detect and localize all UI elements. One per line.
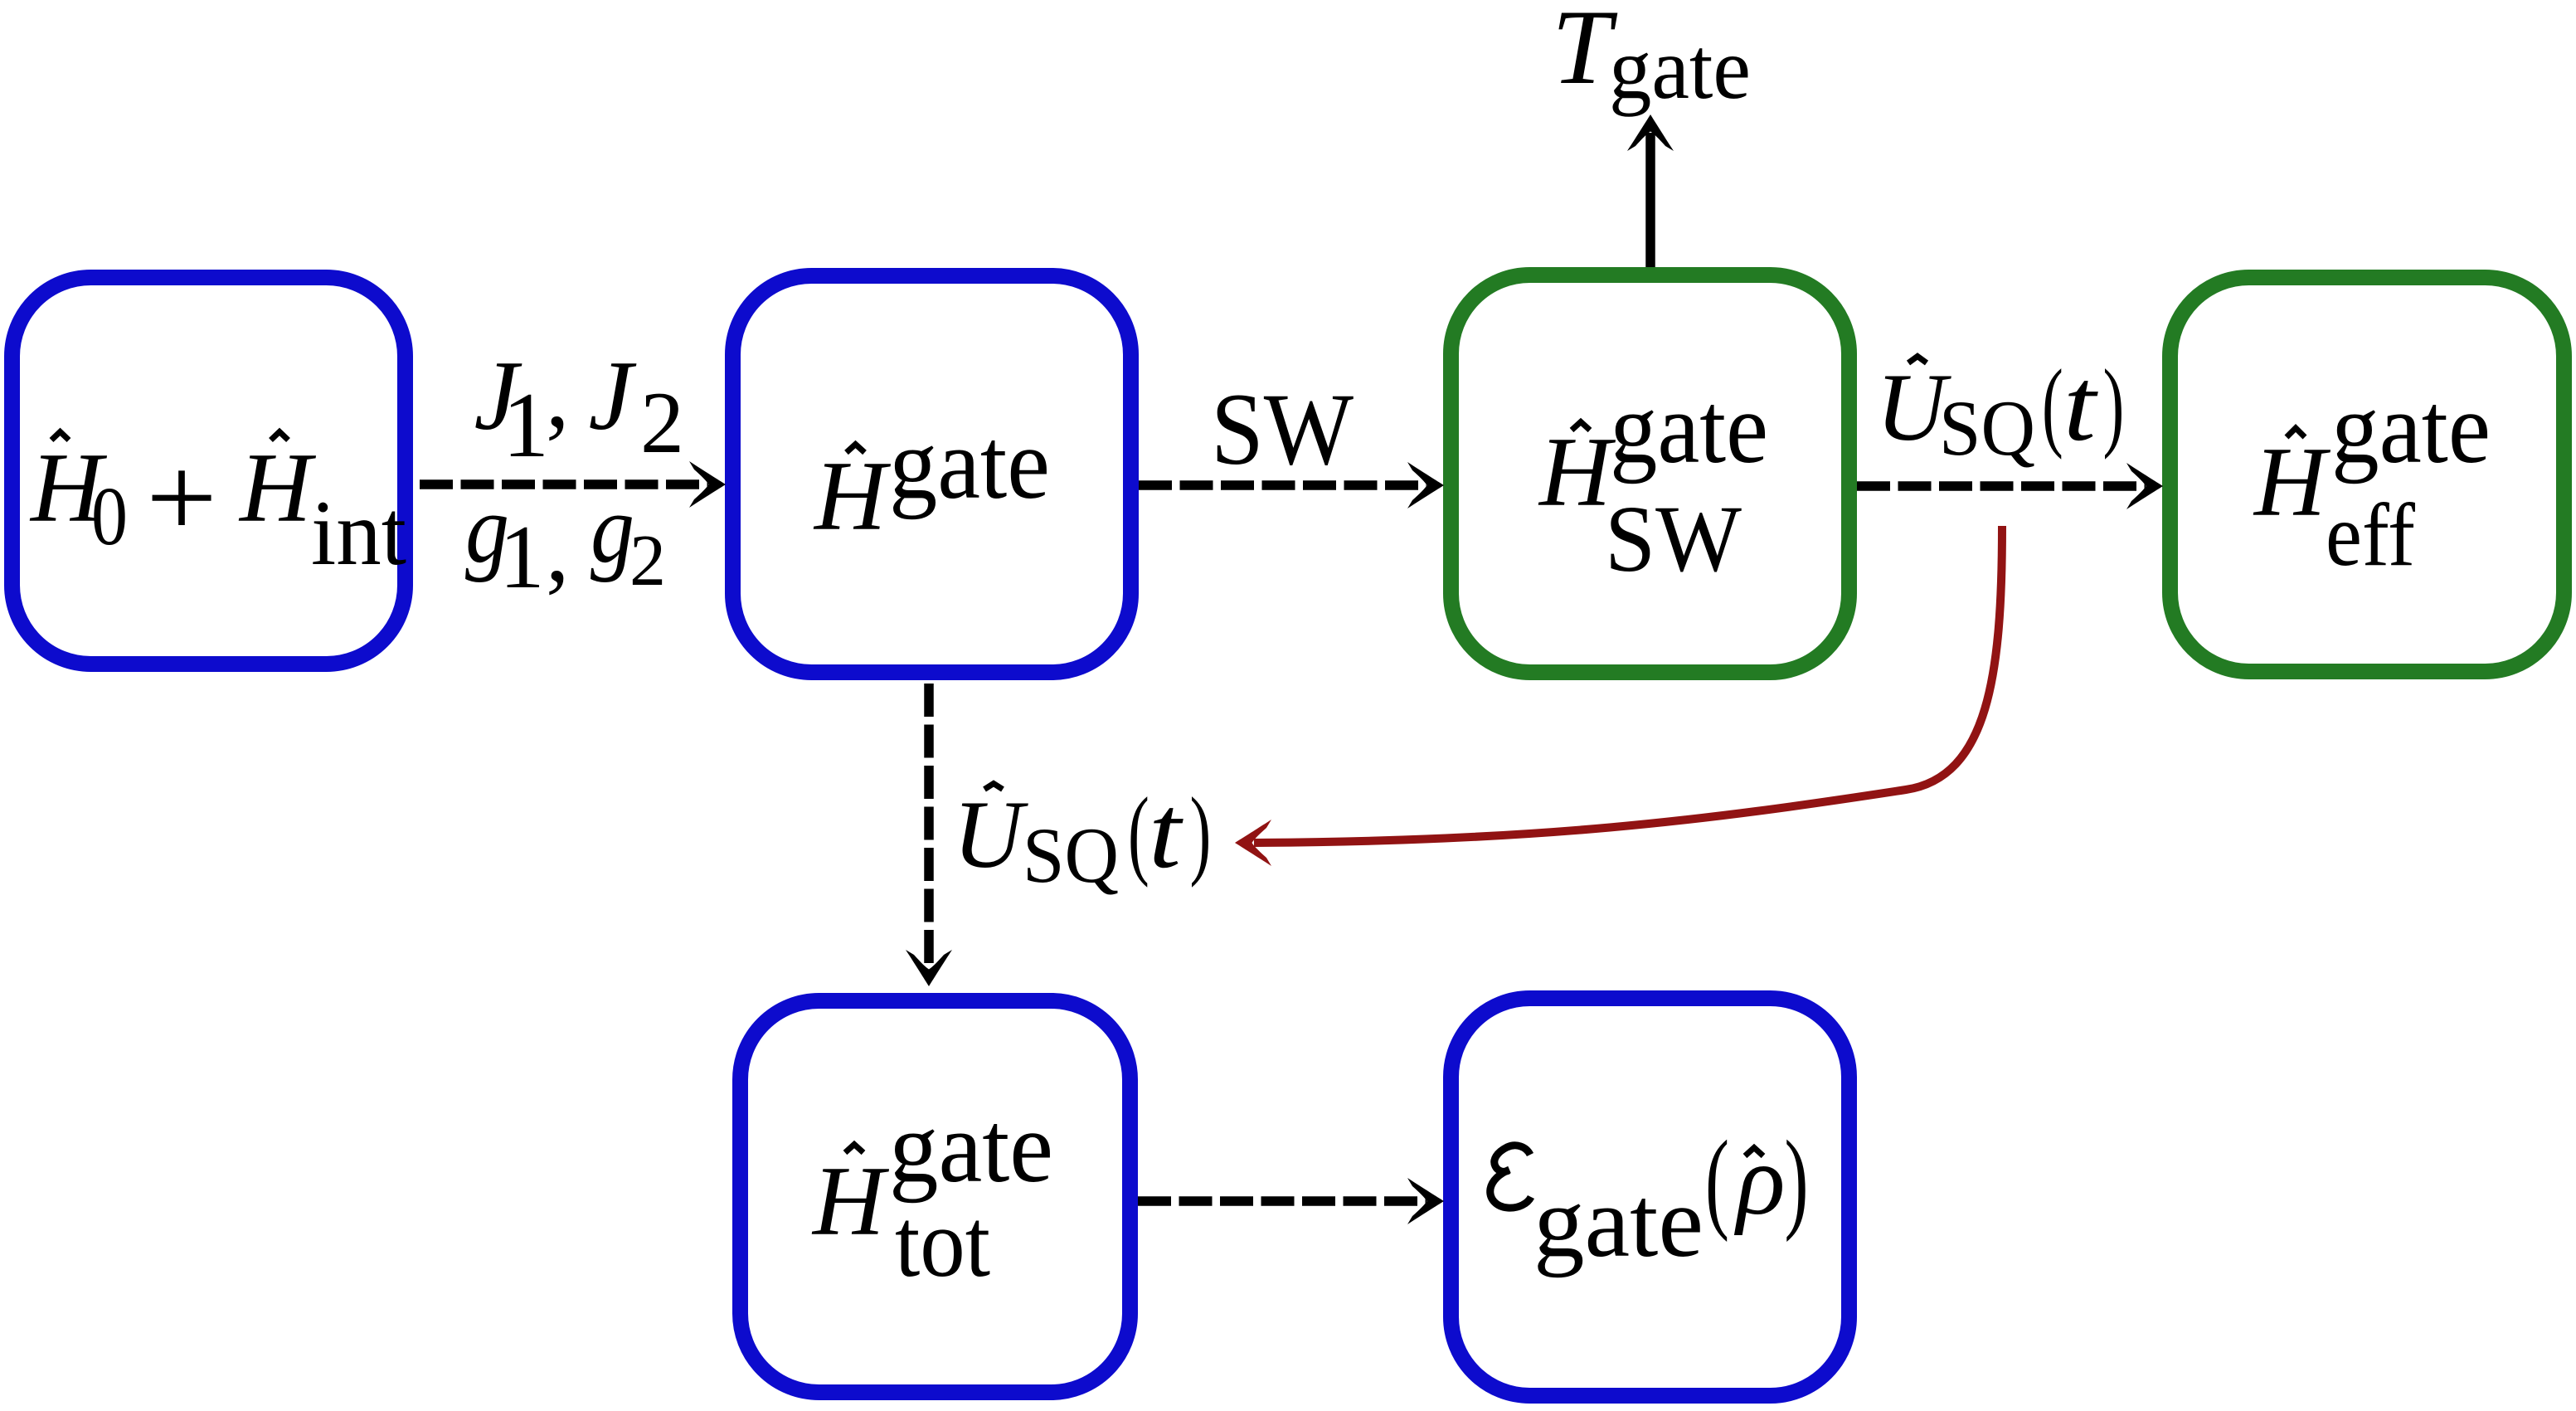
svg-text:gate: gate: [1610, 372, 1768, 484]
svg-text:SW: SW: [1605, 486, 1742, 591]
svg-text:H: H: [238, 432, 317, 543]
svg-text:1: 1: [499, 507, 545, 607]
svg-text:SW: SW: [1211, 372, 1354, 486]
svg-text:,: ,: [546, 342, 570, 447]
svg-text:H: H: [811, 1146, 890, 1256]
svg-text:gate: gate: [2331, 372, 2491, 484]
svg-text:2: 2: [629, 521, 666, 601]
svg-text:2: 2: [640, 374, 684, 471]
svg-text:g: g: [591, 474, 634, 583]
svg-text:eff: eff: [2326, 486, 2415, 585]
svg-text:gate: gate: [1609, 20, 1751, 117]
svg-text:J: J: [589, 340, 637, 450]
svg-text:(: (: [1128, 776, 1149, 888]
svg-text:SQ: SQ: [1023, 811, 1119, 899]
svg-text:): ): [1785, 1117, 1809, 1243]
svg-text:tot: tot: [895, 1189, 990, 1297]
svg-text:U: U: [953, 781, 1028, 888]
svg-text:t: t: [1149, 775, 1184, 890]
svg-text:t: t: [2063, 348, 2098, 463]
svg-text:ρ: ρ: [1733, 1124, 1786, 1236]
svg-text:gate: gate: [1533, 1166, 1704, 1278]
svg-text:SQ: SQ: [1939, 384, 2035, 472]
svg-text:H: H: [813, 440, 892, 551]
svg-text:): ): [2103, 348, 2125, 460]
svg-text:1: 1: [503, 374, 549, 477]
svg-text:): ): [1190, 776, 1212, 888]
svg-text:0: 0: [91, 470, 128, 562]
svg-text:H: H: [2253, 426, 2331, 537]
svg-text:int: int: [311, 482, 406, 585]
svg-text:+: +: [146, 433, 217, 562]
svg-text:gate: gate: [889, 1092, 1053, 1204]
svg-text:T: T: [1552, 0, 1618, 106]
svg-text:(: (: [1705, 1117, 1729, 1243]
svg-text:gate: gate: [889, 408, 1050, 520]
svg-text:(: (: [2042, 348, 2063, 460]
svg-text:,: ,: [546, 496, 570, 601]
